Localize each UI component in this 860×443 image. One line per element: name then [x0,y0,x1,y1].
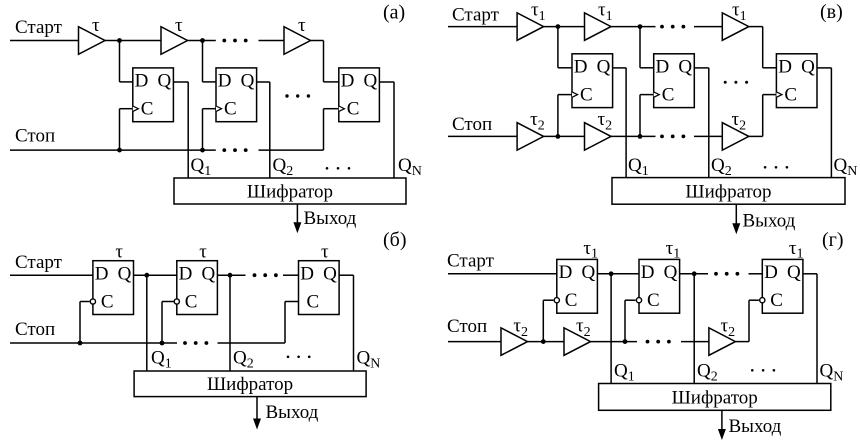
ellipsis mid row (a) [285,94,310,97]
encoder box (v) [612,178,845,205]
ellipsis mid row (v) [724,81,748,84]
junction node Q2 (g) [692,271,697,276]
wire stop buf2 out (g) [591,341,638,343]
wire stop into buf3 (v) [694,135,722,137]
svg-text:Q: Q [118,264,132,285]
wire start buf2 out (v) [611,26,656,28]
ellipsis Q row (b) [287,356,311,359]
junction node C2 (b) [160,341,165,346]
buffer tau2 3 (v) [722,109,749,150]
svg-text:Выход: Выход [743,211,796,232]
flip-flop DD1 (a) [133,68,174,122]
wire Start input (v) [448,26,517,28]
wire Q1 stub (v) [613,67,627,69]
flip-flop DD1 (g) [554,259,597,313]
junction stop C2 (v) [638,134,643,139]
wire C1 vertical (v) [557,95,559,137]
svg-text:C: C [307,292,320,313]
svg-text:Q: Q [363,71,377,92]
svg-text:Стоп: Стоп [452,114,492,135]
wire Q2 down (b) [229,275,231,371]
svg-text:τ: τ [298,15,306,36]
wire C1 (b) [80,301,90,303]
svg-text:(б): (б) [383,229,407,251]
wire stop into buf3 (g) [681,341,709,343]
wire Stop line right (a) [259,149,324,151]
svg-text:C: C [101,292,114,313]
ellipsis start line (v) [660,25,685,29]
wire D1 vertical (a) [119,41,121,82]
svg-text:D: D [179,264,193,285]
ellipsis Q row (a) [326,167,351,170]
flip-flop DDN (g) [760,259,803,313]
junction node C1 (a) [117,148,122,153]
svg-text:D: D [218,71,232,92]
wire Stop line (b) [10,342,177,344]
wire C1 vertical (a) [119,109,121,150]
wire D2 vertical (v) [639,27,641,68]
wire C3 vertical (a) [323,109,325,150]
flip-flop DDN (b) [299,261,340,315]
junction node C2 (a) [200,148,205,153]
wire Q2 out (b) [217,274,245,276]
wire start buf3 out (v) [749,26,763,28]
wire into buf3 (a) [259,40,285,42]
svg-text:C: C [224,99,237,120]
junction stop C2 (g) [623,339,628,344]
svg-text:D: D [641,262,655,283]
svg-text:D: D [300,264,314,285]
svg-text:C: C [662,85,675,106]
flip-flop DD2 (v) [654,54,695,108]
buffer tau2 2 (g) [564,316,591,356]
wire C1 (g) [543,299,553,301]
svg-text:Выход: Выход [304,208,357,229]
svg-text:Шифратор: Шифратор [685,181,771,202]
wire Q1 down (b) [146,275,148,371]
buffer tau1 2 (v) [585,0,613,40]
svg-text:Q: Q [323,264,337,285]
wire C3 vertical (v) [762,95,764,137]
flip-flop DDN (a) [339,68,380,122]
junction start D2 (v) [638,24,643,29]
svg-text:C: C [770,290,783,311]
output arrow Vyhod (a) [293,204,356,233]
buffer tau 1 (a) [79,15,106,54]
svg-text:Стоп: Стоп [15,319,55,340]
wire D2 vertical (a) [202,41,204,82]
svg-text:D: D [778,57,792,78]
svg-text:Шифратор: Шифратор [672,387,758,408]
wire Q2 stub (v) [694,67,709,69]
wire into FF3 (g) [749,273,763,275]
wire Stop line right (b) [218,342,286,344]
wire C3 (b) [285,301,299,303]
wire C3 (g) [749,299,759,301]
junction node Q2 (b) [228,273,233,278]
wire buf2 out (a) [188,40,216,42]
wire stop buf1-buf2 (g) [528,341,565,343]
wire Stop input (g) [448,341,501,343]
svg-text:Старт: Старт [15,252,63,273]
wire Stop line (a) [10,149,216,151]
wire QN stub (a) [379,81,394,83]
wire start buf1-buf2 (v) [544,26,585,28]
flip-flop DD1 (b) [90,261,133,315]
svg-text:C: C [141,99,154,120]
flip-flop DD2 (g) [636,259,679,313]
wire Q2 down (g) [693,274,695,384]
buffer tau 3 (a) [284,15,311,54]
wire Q2 stub (a) [257,81,270,83]
svg-text:Q: Q [664,262,678,283]
wire Q1 down (g) [610,274,612,384]
svg-text:D: D [95,264,109,285]
svg-text:Старт: Старт [452,4,500,25]
svg-text:Стоп: Стоп [15,126,55,147]
svg-text:Шифратор: Шифратор [247,181,333,202]
svg-text:τ: τ [175,15,183,36]
svg-text:Q: Q [801,57,815,78]
wire C2 vertical (v) [639,95,641,137]
ellipsis Q row (v) [764,166,788,169]
wire Start input (a) [10,40,79,42]
buffer tau2 3 (g) [709,316,736,356]
svg-text:C: C [647,290,660,311]
buffer tau1 1 (v) [517,0,546,40]
wire into FF3 (b) [283,274,299,276]
output arrow Vyhod (g) [718,410,782,440]
wire stop buf3 out (g) [735,341,749,343]
wire Q2 out (g) [680,273,708,275]
svg-text:τ: τ [321,242,329,263]
svg-text:Q: Q [787,262,801,283]
svg-text:τ: τ [115,242,123,263]
svg-text:(г): (г) [822,229,844,251]
svg-text:Q: Q [241,71,255,92]
wire buf1-buf2 (a) [105,40,161,42]
output arrow Vyhod (b) [253,397,319,430]
svg-text:D: D [135,71,149,92]
wire stop buf3 out (v) [749,135,763,137]
buffer tau 2 (a) [161,15,188,54]
junction node Q1 (b) [144,273,149,278]
wire stop buf2 out (v) [611,135,656,137]
svg-text:Стоп: Стоп [447,316,487,337]
svg-text:Выход: Выход [729,416,782,437]
svg-text:C: C [784,85,797,106]
wire QN stub (b) [339,274,353,276]
wire Q1-D2 (g) [597,273,639,275]
svg-text:Q: Q [678,57,692,78]
svg-text:D: D [559,262,573,283]
svg-text:D: D [764,262,778,283]
svg-text:C: C [580,85,593,106]
junction node D2 (a) [200,38,205,43]
flip-flop DD2 (a) [216,68,257,122]
svg-text:Q: Q [581,262,595,283]
svg-text:Старт: Старт [15,17,63,38]
ellipsis chain (b) [253,273,278,277]
ellipsis stop line (b) [183,341,208,345]
svg-text:Q: Q [157,71,171,92]
wire stop buf1-buf2 (v) [544,135,585,137]
buffer tau1 3 (v) [722,0,749,40]
junction start D1 (v) [556,24,561,29]
buffer tau2 1 (g) [501,316,528,356]
encoder box (g) [599,384,831,411]
svg-text:C: C [347,99,360,120]
wire buf3 out (a) [311,40,324,42]
svg-text:Выход: Выход [266,402,319,423]
svg-text:Q: Q [597,57,611,78]
ellipsis stop line (g) [646,340,671,344]
junction stop C1 (v) [556,134,561,139]
encoder box (a) [174,178,406,204]
svg-text:τ: τ [92,15,100,36]
svg-text:D: D [656,57,670,78]
svg-text:(а): (а) [383,1,405,23]
junction node D1 (a) [117,38,122,43]
ellipsis start line (a) [222,39,247,43]
svg-text:C: C [185,292,198,313]
wire C2 vertical (a) [202,109,204,150]
svg-text:D: D [341,71,355,92]
wire start into buf3 (v) [694,26,722,28]
svg-text:Старт: Старт [447,251,495,272]
junction stop C1 (g) [541,339,546,344]
wire D3 vertical (a) [323,41,325,82]
encoder box (b) [134,371,366,397]
ellipsis stop line (v) [660,135,685,139]
ellipsis stop line (a) [222,148,247,152]
svg-text:(в): (в) [820,1,843,23]
svg-text:C: C [565,290,578,311]
junction node C1 (b) [78,341,83,346]
wire Start input (b) [10,274,93,276]
buffer tau2 1 (v) [517,109,545,150]
wire D1 vertical (v) [557,27,559,68]
wire D3 vertical (v) [762,27,764,68]
wire QN stub (g) [803,273,817,275]
wire C2 (g) [625,299,636,301]
svg-text:Q: Q [201,264,215,285]
svg-text:τ: τ [199,242,207,263]
svg-text:Шифратор: Шифратор [207,374,293,395]
wire Q1 stub (a) [173,81,188,83]
wire Q1-D2 (b) [134,274,177,276]
ellipsis Q row (g) [751,369,775,372]
output arrow Vyhod (v) [732,204,795,234]
wire QN stub (v) [817,67,831,69]
ellipsis chain (g) [714,272,739,276]
svg-text:D: D [574,57,588,78]
wire C2 (b) [162,301,174,303]
flip-flop DD2 (b) [174,261,217,315]
buffer tau2 2 (v) [585,109,613,150]
wire Start input (g) [448,273,557,275]
junction node Q1 (g) [609,271,614,276]
wire Stop input (v) [448,135,517,137]
flip-flop DDN (v) [776,54,817,108]
flip-flop DD1 (v) [572,54,613,108]
